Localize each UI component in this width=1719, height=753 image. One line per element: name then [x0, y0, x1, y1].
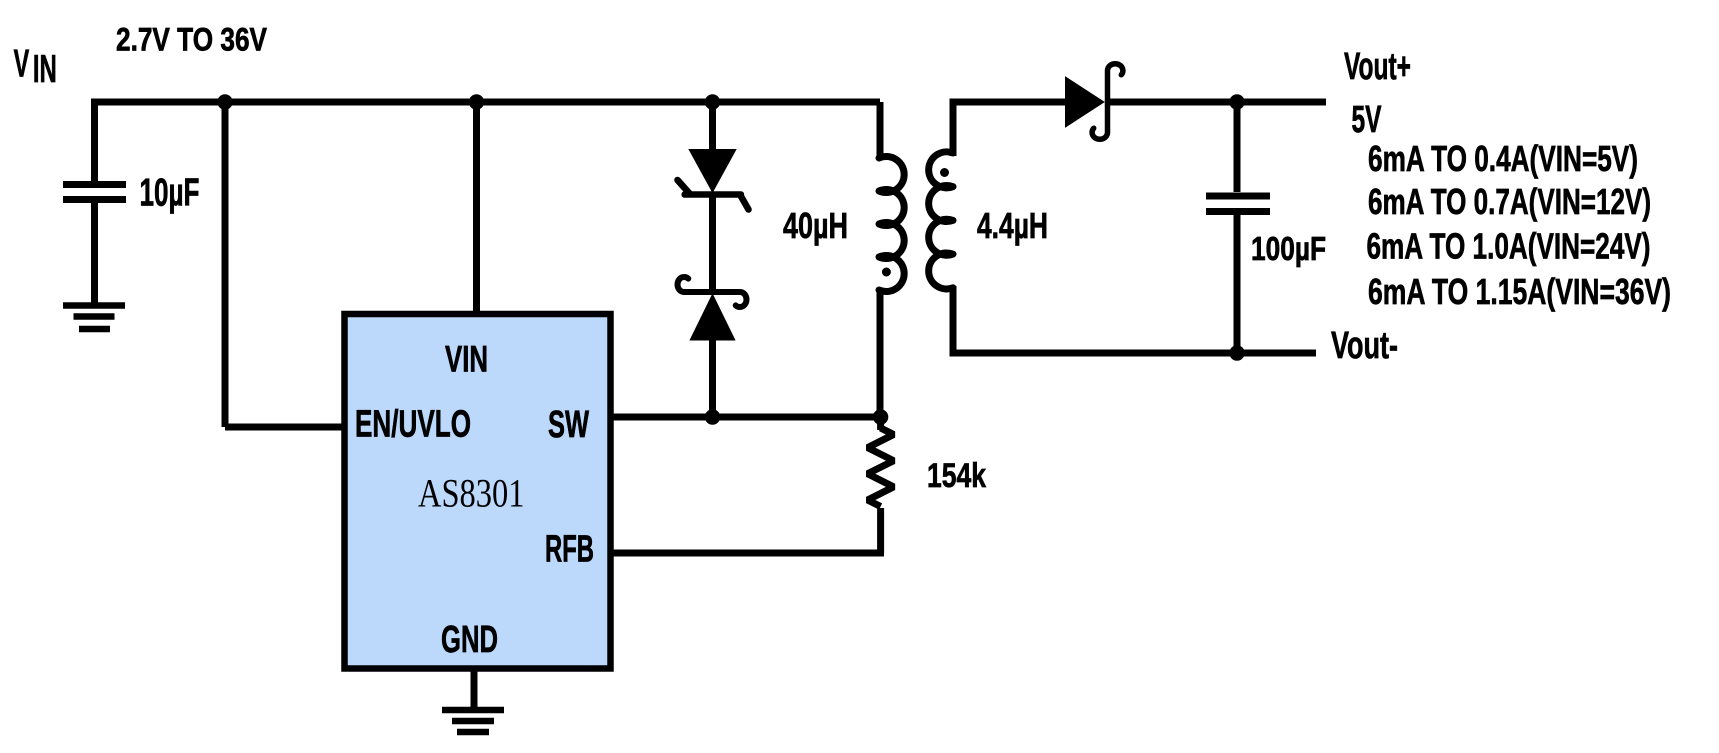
svg-text:10µF: 10µF — [140, 172, 200, 215]
zener diode D1 triangle — [690, 150, 735, 191]
svg-text:VIN: VIN — [445, 338, 488, 380]
wire: VIN top rail — [93, 99, 880, 106]
node: SW/zener junction — [705, 409, 720, 424]
node: Vout- junction — [1229, 345, 1244, 360]
resistor R1 154k — [868, 428, 894, 507]
wire: resistor bottom to RFB — [877, 508, 884, 553]
svg-text:6mA TO 1.15A(VIN=36V): 6mA TO 1.15A(VIN=36V) — [1368, 271, 1671, 312]
svg-text:6mA TO 1.0A(VIN=24V): 6mA TO 1.0A(VIN=24V) — [1367, 226, 1651, 267]
wire: output cap top stub — [1234, 102, 1241, 192]
svg-text:AS8301: AS8301 — [418, 471, 525, 516]
wire: schottky D2 to SW rail — [709, 338, 716, 417]
node: rail/EN junction — [217, 94, 232, 109]
svg-text:EN/UVLO: EN/UVLO — [355, 404, 471, 446]
capacitor C2 100uF — [1206, 196, 1270, 212]
wire: VIN pin stub — [473, 102, 480, 313]
wire: input cap branch — [91, 99, 98, 182]
zener diode D1 cathode bar — [678, 180, 749, 210]
svg-text:Vout-: Vout- — [1331, 325, 1398, 367]
node: SW/resistor junction — [873, 409, 888, 424]
wire: output cap bottom stub — [1234, 215, 1241, 353]
svg-text:5V: 5V — [1352, 99, 1382, 141]
ground: input ground — [63, 306, 125, 330]
wire: secondary bottom stub — [950, 286, 957, 357]
svg-text:V: V — [14, 43, 30, 86]
wire: EN/UVLO branch vertical — [222, 102, 229, 427]
wire: C1 to ground — [91, 200, 98, 304]
IC U1 AS8301 body — [345, 314, 611, 669]
svg-text:IN: IN — [33, 48, 57, 91]
schottky diode D3 triangle — [1066, 78, 1103, 126]
svg-text:154k: 154k — [927, 457, 987, 495]
transformer T1 secondary winding 4.4uH — [929, 152, 953, 289]
wire: primary top stub — [877, 102, 884, 160]
node: rail/zener junction — [705, 94, 720, 109]
node: rail/VIN-pin junction — [469, 94, 484, 109]
wire: SW rail — [610, 414, 881, 421]
wire: secondary to diode D3 anode — [950, 99, 1067, 106]
schottky diode D2 cathode bar — [678, 277, 747, 307]
svg-text:SW: SW — [548, 404, 589, 446]
svg-text:6mA TO 0.7A(VIN=12V): 6mA TO 0.7A(VIN=12V) — [1368, 181, 1651, 222]
transformer T1 primary phase dot — [882, 268, 891, 277]
svg-text:2.7V TO 36V: 2.7V TO 36V — [116, 22, 268, 58]
wire: diode D3 to output — [1108, 99, 1326, 106]
wire: zener branch top stub — [709, 102, 716, 152]
transformer T1 secondary phase dot — [940, 168, 949, 177]
svg-text:GND: GND — [441, 619, 498, 661]
ground: IC ground — [442, 710, 504, 732]
wire: GND pin stub — [471, 670, 478, 707]
svg-text:40µH: 40µH — [783, 205, 848, 246]
wire: resistor top stub — [877, 417, 884, 430]
wire: secondary top stub — [950, 99, 957, 157]
svg-text:4.4µH: 4.4µH — [977, 205, 1048, 246]
schottky diode D2 triangle — [691, 296, 734, 340]
net label VIN (input) — [14, 43, 57, 91]
wire: zener interconnect — [709, 197, 716, 289]
wire: EN/UVLO branch horizontal — [225, 424, 344, 431]
svg-text:6mA TO 0.4A(VIN=5V): 6mA TO 0.4A(VIN=5V) — [1368, 138, 1638, 179]
capacitor C1 10uF — [63, 185, 126, 200]
svg-text:Vout+: Vout+ — [1344, 46, 1411, 88]
wire: Vout- bottom rail — [950, 350, 1317, 357]
wire: primary bottom stub — [877, 288, 884, 417]
svg-text:RFB: RFB — [545, 529, 594, 571]
wire: RFB rail — [610, 550, 884, 557]
node: Vout+ junction — [1229, 94, 1244, 109]
transformer T1 primary winding 40uH — [879, 157, 904, 292]
svg-text:100µF: 100µF — [1251, 230, 1326, 267]
schottky diode D3 cathode bar — [1092, 64, 1123, 140]
